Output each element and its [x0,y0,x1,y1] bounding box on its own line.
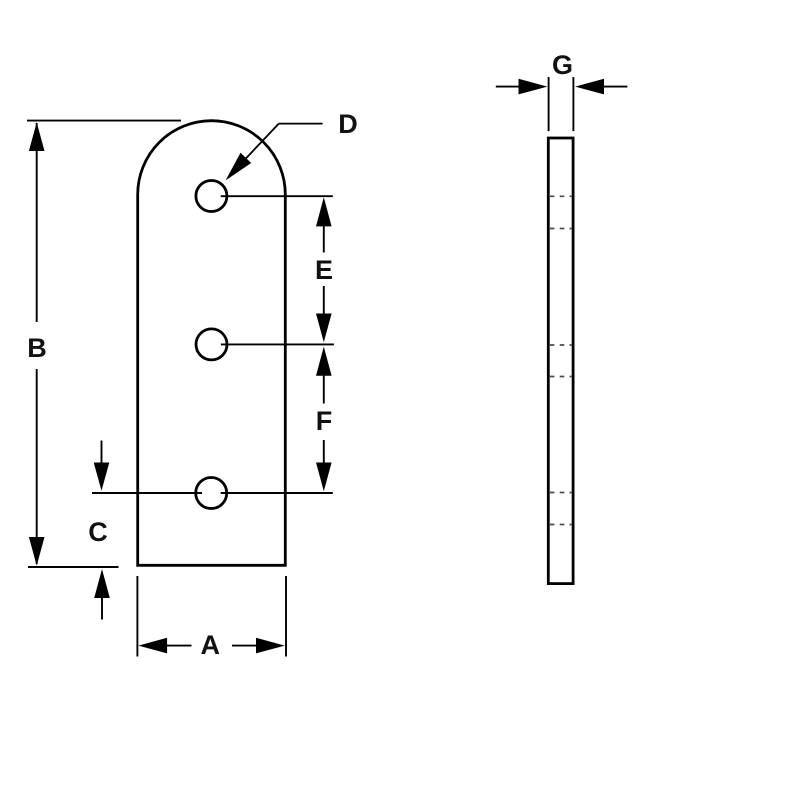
dimension line G left [496,86,520,88]
arrowhead B top [29,122,45,151]
svg-text:A: A [201,630,221,660]
arrowhead A right [256,638,285,654]
hidden line hole2 bottom [550,376,572,378]
dimension line B upper [36,123,38,322]
dimension line B lower [36,369,38,564]
dimension line C lower stem [101,597,103,620]
hidden line hole1 top [550,195,572,197]
dimension line E upper [323,226,325,253]
hidden line hole1 bottom [550,228,572,230]
dimension line F lower [323,440,325,464]
leader line D diagonal [243,124,279,162]
hole middle [196,329,227,360]
svg-text:B: B [27,333,47,363]
arrowhead F down [316,463,332,492]
svg-text:G: G [552,50,573,80]
arrowhead E down [316,314,332,343]
dimension line E lower [323,286,325,314]
hole top [196,181,227,212]
extension line A left [136,576,138,657]
extension line top (B) [27,120,181,122]
arrowhead G right [575,79,604,95]
side view outline [548,138,573,584]
hole bottom [196,478,227,509]
arrowhead C up [94,569,110,598]
arrowhead G left [519,79,548,95]
leader line D horizontal [279,123,323,125]
svg-text:C: C [88,517,108,547]
svg-text:E: E [315,255,333,285]
center line top hole [221,195,333,197]
hidden line hole2 top [550,344,572,346]
extension line G right [572,77,574,131]
hidden line hole3 top [550,492,572,494]
arrowhead A left [138,638,167,654]
center line bottom hole left [92,492,202,494]
arrowhead C down [94,463,110,491]
extension line G left [548,77,550,131]
dimension line G right [602,86,627,88]
arrowhead F up [316,347,332,376]
arrowhead E up [316,197,332,226]
arrowhead D [226,153,252,181]
dimension line A right [232,645,257,647]
center line bottom hole right [221,492,333,494]
dimension line A left [166,645,192,647]
extension line bottom (B/C) [28,566,119,568]
plate outline (front view) [138,121,286,566]
svg-text:F: F [316,406,333,436]
arrowhead B bottom [29,537,45,566]
svg-text:D: D [338,109,358,139]
center line middle hole [221,343,334,345]
hidden line hole3 bottom [550,524,572,526]
extension line A right [285,576,287,657]
dimension line C upper stem [101,441,103,465]
dimension line F upper [323,375,325,404]
